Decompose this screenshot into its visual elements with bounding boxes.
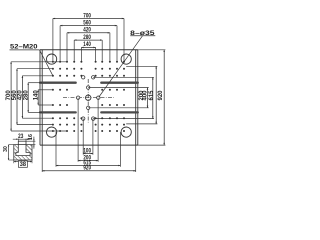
svg-text:23: 23 [18, 133, 24, 140]
svg-text:38: 38 [20, 161, 27, 168]
svg-text:140: 140 [83, 41, 91, 48]
svg-text:920: 920 [83, 165, 91, 172]
svg-text:16: 16 [28, 134, 34, 140]
svg-text:280: 280 [23, 90, 29, 101]
svg-text:140: 140 [33, 90, 39, 101]
svg-text:100: 100 [83, 147, 91, 154]
svg-text:700: 700 [83, 12, 91, 19]
svg-text:52–M20: 52–M20 [10, 43, 38, 50]
svg-text:420: 420 [83, 27, 91, 34]
svg-text:615: 615 [149, 90, 155, 101]
svg-text:920: 920 [158, 90, 164, 101]
svg-text:280: 280 [83, 34, 91, 41]
svg-text:560: 560 [83, 19, 91, 26]
svg-text:400: 400 [143, 90, 149, 101]
